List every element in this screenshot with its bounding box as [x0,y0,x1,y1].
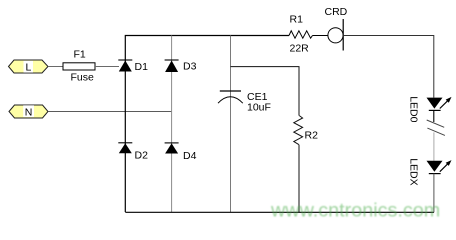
wire fuse to bridge node [95,66,119,68]
fuse F1 [63,63,95,70]
svg-text:CRD: CRD [325,6,348,18]
diode D2 [118,143,132,154]
svg-text:10uF: 10uF [247,102,271,114]
wire R1 to CRD [313,35,329,37]
diode D4 [165,143,179,154]
svg-text:R2: R2 [305,130,319,142]
wire CRD to right column [343,36,434,98]
svg-text:D4: D4 [183,150,197,162]
resistor R2 [294,116,303,145]
svg-text:R1: R1 [290,14,304,26]
wire N terminal to D3/D4 column [48,111,172,113]
wire LED0 to break [433,110,435,122]
wire R2 to bottom rail [298,145,300,213]
CRD current regulating diode [328,19,343,51]
svg-text:N: N [25,106,33,118]
wire D3/D4 column [171,36,173,213]
terminal L [9,60,49,74]
wire break to LEDX [433,132,435,160]
terminal N [9,105,48,118]
diode D1 [118,60,132,72]
wire L terminal to fuse [48,66,63,68]
capacitor CE1 [218,91,243,103]
svg-text:D1: D1 [135,61,149,73]
svg-text:www.cntronics.com: www.cntronics.com [270,200,440,222]
svg-text:Fuse: Fuse [71,72,95,84]
diode D3 [165,60,179,72]
svg-text:LED0: LED0 [408,96,420,122]
wire LEDX to bottom rail [433,174,435,213]
LED LED0 [427,97,452,111]
svg-text:LEDX: LEDX [408,158,420,185]
svg-text:L: L [26,62,32,74]
svg-text:F1: F1 [74,49,86,61]
resistor R1 [289,31,313,38]
wire CE1 branch to R2 [231,67,300,116]
wire bottom rail [125,211,434,213]
LED LEDX [427,160,452,174]
wire top rail left segment [125,36,289,213]
break symbol (series continuation) [427,120,445,135]
svg-text:D2: D2 [135,150,149,162]
svg-text:D3: D3 [183,61,197,73]
wire CE1 column [230,36,232,213]
svg-text:22R: 22R [290,43,310,55]
